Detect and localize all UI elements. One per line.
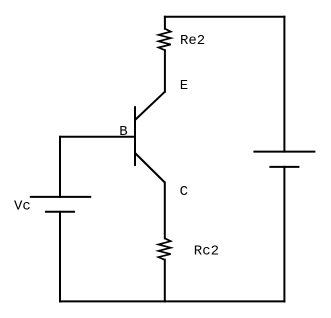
- battery Vc (left voltage source: long + plate, short - plate): [30, 197, 91, 212]
- wire (Vc battery - down to bottom rail): [59, 212, 61, 302]
- svg-text:E: E: [180, 78, 188, 94]
- svg-text:C: C: [180, 184, 188, 200]
- wire (bottom rail): [60, 300, 284, 302]
- wire (left side, base corner down to Vc battery +): [59, 137, 61, 197]
- transistor (base bar, emitter arm, collector arm): [135, 92, 165, 183]
- wire (Rc2 bottom lead down to bottom rail junction): [164, 260, 166, 302]
- wire (Re2 bottom lead down to emitter): [164, 50, 166, 91]
- resistor Re2: [159, 29, 171, 51]
- svg-text:Rc2: Rc2: [194, 244, 219, 260]
- battery (right voltage source, unlabeled: long + plate, short - plate): [253, 152, 315, 167]
- svg-text:Re2: Re2: [180, 33, 205, 49]
- wire (top rail from Re2 top to right battery +): [165, 16, 285, 18]
- svg-text:Vc: Vc: [14, 198, 31, 214]
- wire (base lead, left corner to transistor bar): [60, 136, 135, 138]
- wire (Re2 top lead up to top rail): [164, 17, 166, 29]
- wire (right battery - down to bottom rail): [283, 167, 285, 302]
- resistor Rc2: [158, 238, 170, 259]
- wire (collector lead down to Rc2): [164, 183, 166, 239]
- wire (right side, top rail corner down to right battery +): [283, 17, 285, 152]
